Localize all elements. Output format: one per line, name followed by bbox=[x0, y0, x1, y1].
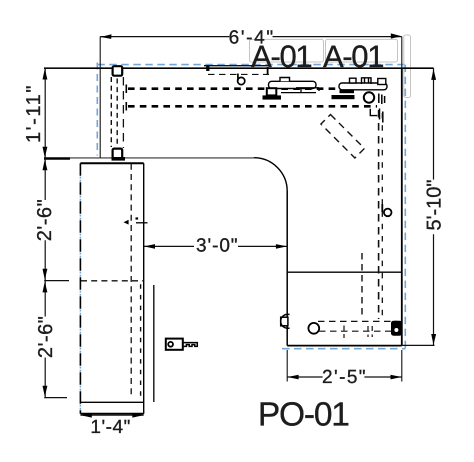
wall rail left cap bbox=[206, 66, 209, 71]
arm symbol 2 bar bbox=[339, 83, 387, 90]
bottom unit circle bbox=[308, 323, 319, 334]
right wing dashed vertical A2 bbox=[381, 113, 383, 318]
dim 2-5 ext right bbox=[401, 350, 403, 382]
dim 1-4 arrow right bbox=[132, 413, 143, 418]
right wing interior line bbox=[287, 271, 402, 273]
keyboard tray diagonal dashed bbox=[321, 115, 364, 158]
right wing left edge bbox=[286, 191, 288, 346]
leg bottom square foot bar bbox=[112, 157, 126, 161]
blue dashed outline left bbox=[96, 63, 98, 156]
arm symbol 2 under bar bbox=[340, 90, 355, 93]
dim 3-0 arrow right bbox=[276, 244, 287, 249]
key icon body bbox=[166, 339, 183, 350]
blue dashed outline bottom bbox=[282, 348, 406, 350]
small tick marker line bbox=[136, 222, 148, 224]
leg post square top bbox=[113, 66, 123, 76]
arm symbol 2 foot bbox=[332, 95, 355, 99]
small tick marker arrow bbox=[124, 220, 129, 225]
desk bottom edge right wing bbox=[287, 345, 402, 347]
arm symbol 1 foot bbox=[263, 95, 282, 99]
arm symbol 2 tab c bbox=[378, 79, 386, 85]
bottom unit right blob bbox=[391, 321, 402, 336]
left wing left edge phantom blue dots bbox=[79, 177, 81, 414]
bottom unit clamp rect bbox=[281, 317, 288, 326]
left dim mid ext bbox=[44, 280, 69, 282]
left dim main line bbox=[44, 68, 46, 397]
left dim bottom ext bbox=[44, 397, 67, 399]
svg-text:2'-5": 2'-5" bbox=[322, 367, 366, 388]
left wing bottom band top line bbox=[80, 401, 143, 403]
key icon shaft bbox=[183, 343, 198, 347]
desk inner edge heavy segment bbox=[44, 157, 70, 160]
dim 2-5 line bbox=[287, 376, 402, 378]
heavy dashed line 1 tick bbox=[125, 85, 127, 94]
svg-text:2'-6": 2'-6" bbox=[34, 199, 56, 241]
left dim arrow down 3 bbox=[43, 386, 48, 397]
bottom unit dashed top bbox=[318, 320, 397, 322]
leg post square bottom bbox=[113, 149, 123, 159]
right wing dashed vertical A bbox=[378, 110, 380, 319]
arm symbol 1 bar bbox=[269, 81, 317, 88]
arm symbol 2 tab a bbox=[350, 78, 357, 83]
arm symbol 1 step lines bbox=[281, 88, 319, 93]
small tick marker dot bbox=[136, 217, 139, 219]
dim 5-10 arrow down bbox=[431, 334, 436, 345]
dim 6-4 ext right bbox=[401, 37, 403, 69]
dim 2-5 ext left bbox=[286, 350, 288, 382]
dim 5-10 line bbox=[433, 68, 435, 345]
dim 6-4 line right bbox=[273, 36, 402, 38]
left dim arrow up 3 bbox=[43, 282, 48, 293]
right wing dashed vertical B bbox=[361, 253, 363, 318]
svg-text:3'-0": 3'-0" bbox=[196, 236, 238, 257]
bottom unit clamp circle bbox=[281, 314, 290, 328]
arm symbol 2 bracket bbox=[370, 109, 377, 116]
desk right edge bbox=[401, 68, 403, 345]
arm symbol 2 tab b bbox=[362, 77, 372, 84]
arm symbol 1 bump bbox=[280, 78, 290, 82]
heavy dashed line 2 tick bbox=[125, 102, 127, 111]
dim 2-5 arrow right bbox=[391, 375, 402, 380]
left dim arrow up 1 bbox=[43, 69, 48, 80]
svg-text:1'-11": 1'-11" bbox=[23, 86, 45, 144]
grommet circle top bbox=[238, 77, 245, 84]
dim 6-4 ext left bbox=[99, 37, 101, 158]
svg-text:1'-4": 1'-4" bbox=[90, 417, 130, 438]
grommet circle right bbox=[384, 209, 392, 217]
heavy dashed line 1 bbox=[128, 87, 340, 90]
wall rail top line bbox=[204, 65, 269, 67]
dim 3-0 arrow left bbox=[144, 244, 155, 249]
left wing dashed interior horizontal bbox=[81, 280, 144, 282]
desk top edge bbox=[44, 67, 434, 69]
inner corner arc bbox=[254, 158, 287, 191]
grommet top tail bbox=[237, 74, 239, 81]
left dim arrow up 2 bbox=[43, 159, 48, 170]
arm symbol 1 post bbox=[267, 88, 277, 95]
left dim top corner ext bbox=[45, 67, 80, 69]
dim 6-4 line left bbox=[100, 36, 229, 38]
left wing dashed interior vertical bbox=[130, 164, 132, 396]
wall rail right cap bbox=[267, 67, 269, 74]
svg-text:2'-6": 2'-6" bbox=[35, 316, 57, 358]
gray tag box 2 bbox=[326, 39, 398, 62]
side vertical line right of left wing bbox=[153, 285, 155, 402]
dim 5-10 bottom extension along desk bottom bbox=[402, 344, 435, 346]
dim 3-0 line bbox=[144, 245, 288, 247]
arm symbol 2 bracket hatch bbox=[380, 109, 383, 123]
grommet right tail bbox=[381, 204, 383, 212]
dim 2-5 arrow left bbox=[288, 375, 299, 380]
blue dashed outline top bbox=[97, 64, 405, 66]
desk inner edge thin bbox=[70, 157, 254, 159]
svg-text:5'-10": 5'-10" bbox=[423, 180, 445, 231]
left dim arrow down 2 bbox=[43, 269, 48, 280]
left wing right edge bbox=[143, 163, 145, 413]
left wing top edge bbox=[80, 162, 143, 164]
bottom unit dashes mid bbox=[344, 326, 372, 339]
gray tag box 3 bbox=[404, 35, 411, 98]
gray tag box 1 bbox=[250, 39, 324, 62]
arm symbol 2 caster bbox=[364, 92, 374, 102]
svg-text:PO-01: PO-01 bbox=[258, 397, 350, 434]
dim 6-4 arrow left bbox=[100, 34, 111, 39]
arm symbol 2 hatch bbox=[379, 94, 385, 105]
heavy dashed line 2 bbox=[128, 105, 377, 108]
left wing bottom edge bbox=[80, 413, 143, 415]
dim 1-4 arrow left bbox=[81, 413, 92, 418]
svg-text:A-01: A-01 bbox=[251, 39, 313, 74]
svg-text:A-01: A-01 bbox=[323, 39, 385, 74]
key icon inner bbox=[168, 342, 173, 347]
dim 5-10 arrow up bbox=[431, 69, 436, 80]
left wing left edge phantom black dashes bbox=[79, 163, 81, 413]
dim 6-4 arrow right bbox=[391, 33, 402, 38]
wall rail dashed bottom bbox=[208, 73, 269, 75]
pedestal dashed vertical bbox=[140, 281, 142, 399]
leg channel dashed line a bbox=[110, 77, 112, 147]
bottom unit dashed bottom bbox=[319, 330, 397, 332]
blue dashed outline right bbox=[404, 65, 406, 349]
left dim arrow down 1 bbox=[43, 147, 48, 158]
leg channel dashed line c bbox=[122, 77, 124, 148]
bottom unit right blob hole bbox=[394, 328, 398, 332]
leg channel dashed line b bbox=[116, 79, 118, 148]
dim 1-4 line bbox=[80, 414, 143, 416]
